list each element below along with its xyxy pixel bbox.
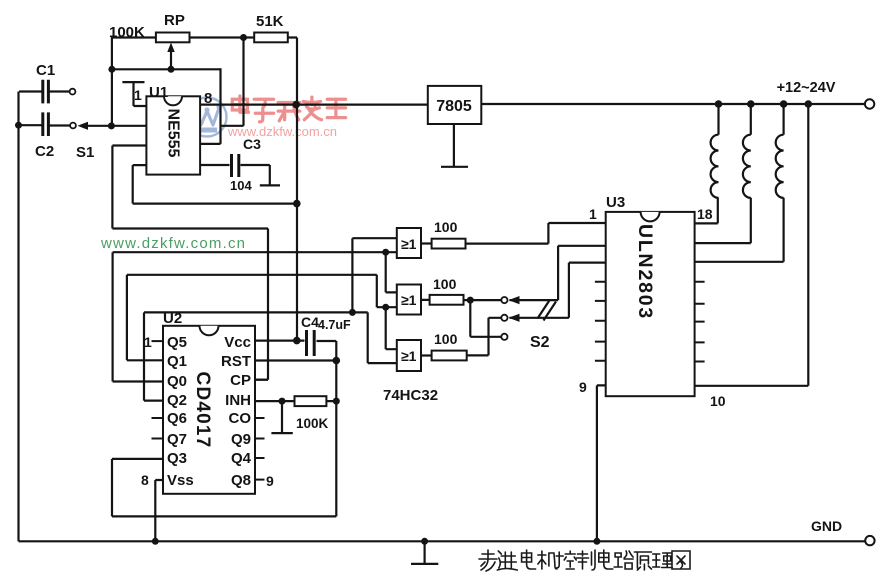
labels U2 left pins [167,334,194,489]
capacitor C4 plates [307,330,315,356]
wire Q0 bus to gate1 [113,252,397,381]
wire C3 leads [200,165,280,185]
wire U2 Vcc to C4 [255,340,305,342]
wire Q3 loop to RST node [112,459,336,517]
wire gate1 output to U3 pin1 [421,223,606,244]
ground 7805 [441,124,468,167]
node power line coil3 [780,100,788,108]
svg-text:C1: C1 [36,62,55,79]
node Q0 bus gate1 [382,249,389,256]
svg-text:Q9: Q9 [231,431,251,448]
svg-text:CD4017: CD4017 [192,372,213,449]
wire Q2 branch gate3 lower [368,312,397,363]
wire gate2 output [421,299,470,301]
svg-text:C3: C3 [243,136,261,152]
ground symbol bottom [411,541,438,564]
svg-text:9: 9 [266,473,274,489]
svg-text:4.7uF: 4.7uF [318,318,351,332]
labels U2 right pins [221,334,252,489]
svg-text:18: 18 [697,206,713,222]
switch S2 contact circle mid [501,315,507,321]
wire bottom ground line [19,540,865,542]
node INH-100K left [279,398,286,405]
wire Q2 branch gate1 upper [352,238,396,312]
wire left rail x18 [17,92,19,542]
svg-text:CO: CO [229,410,252,427]
potentiometer RP wiper arrow [170,49,172,69]
node S1 pin2 junction [108,122,115,129]
wire Q1 branch gate3 upper [386,307,397,349]
svg-text:Q1: Q1 [167,353,187,370]
node 100K-RST rail [333,398,340,405]
wire U3 pin18 to coil1 [695,198,718,224]
pin stub U2 Q6 [152,417,164,419]
resistor 100K INH body [295,396,327,406]
node ground pin9 [593,538,600,545]
wire U2 INH to 100K [255,400,336,402]
switch S2 arrow pole2 [509,314,520,322]
wire gate2 node to S2 top contact [470,299,501,301]
wire U2 CP stub [255,379,268,381]
svg-text:≥1: ≥1 [401,292,417,308]
svg-text:Q7: Q7 [167,431,187,448]
wire RP wiper bus y69 [112,68,221,70]
wire U2 RST [255,359,336,361]
svg-text:S1: S1 [76,144,94,161]
svg-text:NE555: NE555 [165,109,182,158]
node gate2 output S2 [467,297,474,304]
resistor R2 100 body [430,295,464,305]
wire gate2 node to S2 bottom contact [470,300,501,337]
pin stub U2 CO [255,417,265,419]
svg-text:8: 8 [141,472,149,488]
svg-text:www.dzkfw.com.cn: www.dzkfw.com.cn [100,235,245,252]
wire 555 pin1 tie [122,82,146,106]
terminal +V circle [865,99,874,108]
wire C1 leads [19,90,70,92]
svg-text:≥1: ≥1 [401,236,417,252]
node ground symbol [421,538,428,545]
svg-text:Q0: Q0 [167,373,187,390]
switch S2 contact circle bottom [501,334,507,340]
wire C4 right lead to RST node [317,341,337,516]
wire 555 THR right branch x220 [200,68,220,144]
inductor coil L1 lead [717,104,719,135]
svg-text:≥1: ≥1 [401,348,417,364]
svg-text:51K: 51K [256,13,284,30]
node Q2 bus gate1 branch [349,309,356,316]
svg-text:8: 8 [204,90,212,107]
wire top RC line 100K-RP-51K [112,36,297,38]
svg-text:74HC32: 74HC32 [383,387,438,404]
node ground Vss [152,538,159,545]
wire 51K junction drop x243 [221,38,244,126]
svg-text:RST: RST [221,353,251,370]
svg-text:S2: S2 [530,334,550,351]
inductor coil L3 lead [782,104,784,135]
svg-text:C4: C4 [301,314,319,330]
svg-text:100: 100 [434,219,458,235]
wire U3 pin17 to coil2 [695,198,751,243]
capacitor C3 plates [232,154,239,177]
wire U3 pin9 to ground line [597,385,606,541]
regulator 7805 body [428,86,482,124]
node +5 rail at 555 loop [293,200,301,208]
watermark red text dianzi kaifa wang [232,96,345,122]
wire U2 Vss to ground [155,480,163,541]
watermark logo circle W [188,98,227,137]
op-amp U1 NE555 body [146,96,200,174]
wire 555 pin8 to 7805 [200,103,428,105]
or-gate G1 body [397,228,421,258]
pin stub U2 Q8 pin9 [255,479,265,481]
svg-text:7805: 7805 [436,98,472,115]
pin stub U2 Q7 [152,438,164,440]
svg-text:9: 9 [579,379,587,395]
caption stepper motor control circuit diagram [479,550,690,571]
switch S1 contact circle [70,89,76,95]
resistor 51K body [254,33,288,43]
wire Q0 branch gate2 upper [386,252,397,292]
node +5 rail at pin8 line [292,101,300,109]
svg-text:104: 104 [230,178,252,193]
svg-text:100K: 100K [109,24,145,41]
wire 555 pin4 loop to +5 [133,165,297,204]
inductor coil L2 lead [750,104,752,135]
node RST-C4 [333,357,341,365]
svg-text:1: 1 [589,206,597,222]
svg-text:Vcc: Vcc [224,334,251,351]
node RP-51K junction [240,34,247,41]
svg-text:INH: INH [225,392,251,409]
pin stub U2 Q4 [255,457,265,459]
svg-text:RP: RP [164,12,185,29]
wire 7805 output power line [481,103,865,105]
node power line coil1 [715,100,723,108]
wire Q1 bus to gate2 [127,275,397,361]
switch S1 arrow [78,122,89,130]
or-gate G3 body [397,340,421,371]
resistor R1 100 body [432,239,466,249]
pin stubs U3 left 4-8 [595,282,606,361]
wire +5 rail x297 [296,38,298,341]
wire S2 pole2 to U3 pin3 [510,263,606,318]
pin stub U2 pin1 Q5 [152,340,164,342]
switch S2 linkage slashes [538,300,557,321]
potentiometer RP arrow head [167,43,174,53]
wire 555 pin3 out to CP [112,146,268,380]
switch S2 arrow pole1 [509,296,520,304]
wire U3 pin16 to coil3 [695,198,784,262]
node RP wiper [168,66,175,73]
capacitor C2 plates [43,112,49,136]
LABELS [152,282,705,480]
wire S2 pole1 to U3 pin2 [510,246,606,300]
pin stub U2 Q9 [255,438,265,440]
inductor coil L3 [776,135,784,198]
node C2 left [15,122,22,129]
svg-text:100: 100 [434,331,458,347]
svg-text:Q2: Q2 [167,392,187,409]
svg-text:100: 100 [433,276,457,292]
svg-text:ULN2803: ULN2803 [634,224,656,320]
node power line pin10 branch [805,100,813,108]
ground INH stub [271,401,292,433]
svg-text:U2: U2 [163,310,182,327]
svg-text:CP: CP [230,372,251,389]
wire left 100K node vertical [111,37,113,127]
svg-text:10: 10 [710,393,726,409]
svg-text:Q4: Q4 [231,450,252,467]
wire C2 leads [19,124,71,127]
node power line coil2 [747,100,755,108]
svg-text:Q3: Q3 [167,450,187,467]
resistor R3 100 body [432,351,467,361]
svg-text:U3: U3 [606,194,625,211]
svg-text:Vss: Vss [167,472,194,489]
wire Q2 bus to gates [144,312,368,400]
svg-text:C2: C2 [35,143,54,160]
svg-text:Q5: Q5 [167,334,187,351]
svg-text:Q6: Q6 [167,410,187,427]
pin stubs U3 right 15-11 [695,282,705,362]
or-gate G2 body [397,285,421,315]
svg-text:GND: GND [811,518,842,534]
node +5 rail at Vcc [293,337,301,345]
svg-text:U1: U1 [149,84,168,101]
svg-text:100K: 100K [296,416,329,431]
potentiometer RP body [156,33,190,43]
node 100K top left [108,66,115,73]
svg-text:+12~24V: +12~24V [777,80,836,96]
svg-text:Q8: Q8 [231,472,251,489]
wire U3 pin10 to +V [695,104,809,386]
node Q1 bus gate2 [382,304,389,311]
wire S1 to 555 pin2 [88,125,147,127]
svg-text:1: 1 [144,334,152,350]
capacitor C1 plates [43,80,49,104]
inductor coil L1 [711,135,719,198]
driver U3 ULN2803 body [606,212,695,396]
inductor coil L2 [743,135,751,198]
switch S1 pole circle [70,123,76,129]
terminal GND circle [865,536,874,545]
wire gate3 output [421,318,501,356]
counter U2 CD4017 body [163,326,255,494]
switch S2 contact circle top [501,297,507,303]
svg-text:1: 1 [134,87,142,103]
